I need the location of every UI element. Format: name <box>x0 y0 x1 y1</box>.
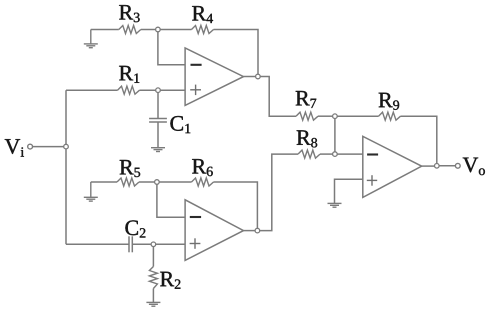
wire node H to R9 <box>337 115 378 117</box>
resistor R5 <box>117 178 139 186</box>
wire R4 to op-amp U1 output <box>214 30 259 75</box>
terminal Vi <box>28 144 33 149</box>
wire R5 to node E <box>139 181 155 183</box>
resistor R9 <box>379 112 401 120</box>
node D (input bus junction) <box>64 144 69 149</box>
wire node E to R6 <box>159 181 191 183</box>
wire node E down to U2 inverting input <box>157 184 185 217</box>
U1 plus sign <box>190 85 201 96</box>
label R5 <box>120 160 140 177</box>
node B (U1 output) <box>256 74 261 79</box>
wire C1 to ground <box>157 122 159 148</box>
wire node F toward R8 <box>260 154 298 231</box>
wire R6 to op-amp U2 output <box>214 182 258 228</box>
U3 plus sign <box>367 175 377 186</box>
U3 minus sign <box>367 153 378 155</box>
wire node C to U1 non-inverting input <box>160 89 185 91</box>
label R9 <box>379 93 399 110</box>
terminal Vo <box>455 163 460 168</box>
U2 minus sign <box>190 216 201 218</box>
label R4 <box>192 6 213 23</box>
node A (R3/R4 junction) <box>156 27 161 32</box>
label Vi <box>5 139 24 156</box>
label Vo <box>463 158 485 176</box>
label R7 <box>296 91 317 108</box>
op-amp U2 <box>185 200 243 261</box>
node E (R5/R6 junction) <box>155 180 160 185</box>
wire U1 output to node B <box>244 76 256 78</box>
label R6 <box>192 159 213 176</box>
wire R9 to node J <box>401 116 437 163</box>
resistor R7 <box>296 112 318 120</box>
wire node G to U2 non-inverting input <box>156 243 185 245</box>
capacitor C2 <box>129 236 132 252</box>
resistor R8 <box>298 150 320 158</box>
node I (R8 / U3 inverting junction) <box>333 152 338 157</box>
node J (U3 output) <box>435 164 440 169</box>
label R8 <box>297 130 318 147</box>
wire R1 to node C <box>140 89 156 91</box>
op-amp U1 <box>185 48 243 106</box>
node F (U2 output) <box>255 228 260 233</box>
wire node C down to C1 <box>157 93 159 119</box>
node C (R1/C1 junction) <box>156 88 161 93</box>
wire R3 to node A <box>141 29 156 31</box>
ground (below R2) <box>146 302 160 306</box>
wire node J to terminal Vo <box>439 165 455 167</box>
node H (R7/R9 junction) <box>333 114 338 119</box>
wire node I to U3 inverting input <box>337 153 363 155</box>
wire node A to R4 <box>160 29 191 31</box>
wire R2 to ground <box>152 289 154 303</box>
label R3 <box>119 5 139 22</box>
label R2 <box>160 272 180 289</box>
wire left bus to C2 <box>66 243 129 245</box>
U2 plus sign <box>190 238 201 249</box>
wire U2 output to node F <box>244 230 256 232</box>
wire ground to R3 <box>91 29 119 31</box>
ground (below U3 non-inverting input) <box>328 203 342 207</box>
resistor R4 <box>192 26 214 34</box>
wire C2 to node G <box>132 243 151 245</box>
ground (below C1) <box>151 148 165 152</box>
U1 minus sign <box>191 64 202 66</box>
wire node B toward R7 <box>260 77 296 117</box>
ground (left of R5) <box>84 182 98 201</box>
resistor R3 <box>119 26 141 34</box>
ground (left of R3) <box>84 30 98 48</box>
op-amp U3 <box>363 136 422 197</box>
wire node A down to U1 inverting input <box>158 32 185 65</box>
wire node H down to node I <box>334 119 336 152</box>
wire U3 output to node J <box>422 165 435 167</box>
wire left bus to R1 <box>66 89 118 91</box>
wire ground to R5 <box>91 181 117 183</box>
wire left bus vertical <box>65 90 67 244</box>
resistor R1 <box>118 86 140 94</box>
wire node G down to R2 <box>152 247 154 267</box>
resistor R6 <box>192 178 214 186</box>
wire U3 non-inverting input to ground <box>335 179 363 203</box>
label C1 <box>170 116 190 133</box>
wire R7 to node H <box>318 115 333 117</box>
wire R8 to node I <box>320 153 333 155</box>
label R1 <box>119 66 139 83</box>
node G (C2/R2 junction) <box>151 242 156 247</box>
capacitor C1 <box>149 119 167 123</box>
wire Vi to node D <box>33 146 64 148</box>
resistor R2 <box>149 267 157 289</box>
label C2 <box>125 220 145 237</box>
